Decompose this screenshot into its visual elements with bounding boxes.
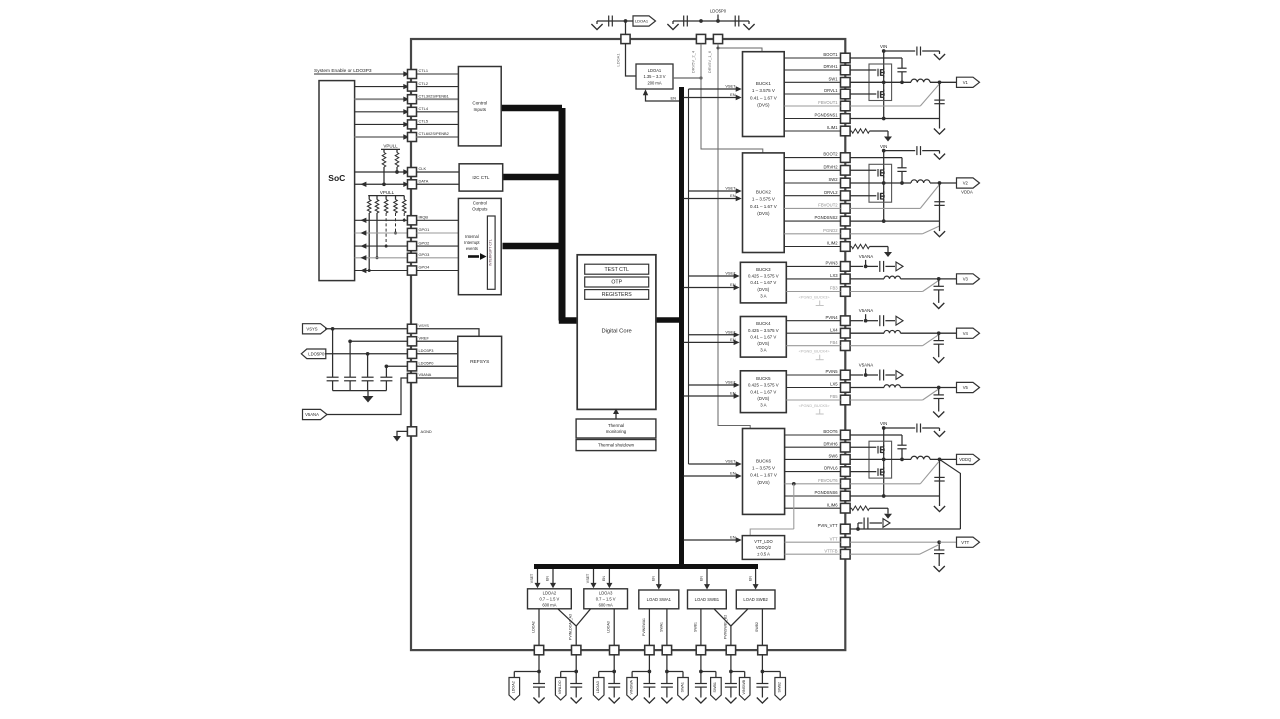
svg-text:Thermal shutdown: Thermal shutdown	[598, 443, 635, 448]
svg-text:VINSWB: VINSWB	[742, 679, 746, 694]
svg-text:V5: V5	[963, 385, 969, 390]
svg-text:VSET: VSET	[725, 271, 736, 276]
svg-text:GPO1: GPO1	[419, 227, 430, 232]
svg-text:SW6: SW6	[829, 454, 839, 459]
svg-text:VPULL: VPULL	[380, 190, 395, 195]
svg-text:VDDA: VDDA	[961, 189, 973, 194]
svg-text:FBVOUT2: FBVOUT2	[818, 203, 838, 208]
svg-text:DRV5V_1_6: DRV5V_1_6	[707, 50, 712, 73]
svg-text:PVINSWB1_B2: PVINSWB1_B2	[723, 615, 727, 639]
svg-text:0.41 – 1.67 V: 0.41 – 1.67 V	[750, 204, 777, 209]
svg-text:SW1: SW1	[829, 76, 839, 81]
svg-text:0.425 – 3.575 V: 0.425 – 3.575 V	[748, 328, 779, 333]
svg-text:EN: EN	[730, 282, 736, 287]
svg-text:EN: EN	[730, 193, 736, 198]
svg-text:REGISTERS: REGISTERS	[602, 292, 633, 298]
svg-text:LDO5P0: LDO5P0	[419, 361, 435, 366]
svg-text:(DVS): (DVS)	[757, 211, 770, 216]
svg-text:PVINLDOA2_A3: PVINLDOA2_A3	[569, 614, 573, 640]
svg-text:LDO5P0: LDO5P0	[308, 351, 325, 356]
svg-text:DATA: DATA	[419, 179, 429, 184]
svg-text:PGNDSNS6: PGNDSNS6	[815, 490, 839, 495]
svg-text:SWB2: SWB2	[778, 682, 782, 692]
svg-text:(DVS): (DVS)	[757, 396, 769, 401]
svg-text:SWB2: SWB2	[755, 622, 759, 632]
svg-text:ILIM2: ILIM2	[827, 241, 838, 246]
svg-text:PVIN_VTT: PVIN_VTT	[818, 523, 838, 528]
svg-text:EN: EN	[652, 576, 656, 581]
svg-text:0.425 – 3.575 V: 0.425 – 3.575 V	[748, 274, 779, 279]
svg-text:VIN: VIN	[880, 421, 887, 426]
svg-text:1 – 3.575 V: 1 – 3.575 V	[752, 88, 775, 93]
svg-text:0.425 – 3.575 V: 0.425 – 3.575 V	[748, 383, 779, 388]
svg-text:BUCK6: BUCK6	[756, 458, 772, 463]
svg-text:EN: EN	[748, 576, 752, 581]
svg-text:0.41 – 1.67 V: 0.41 – 1.67 V	[750, 280, 776, 285]
svg-text:Interrupt: Interrupt	[464, 240, 480, 245]
svg-text:VDDQ: VDDQ	[959, 457, 972, 462]
svg-text:DRVH1: DRVH1	[823, 64, 838, 69]
svg-text:LDO5P0: LDO5P0	[710, 9, 727, 14]
svg-text:VSYS: VSYS	[306, 326, 317, 331]
svg-text:CLK: CLK	[419, 166, 427, 171]
svg-text:SWA1: SWA1	[680, 682, 684, 692]
svg-text:PVIN4: PVIN4	[825, 315, 838, 320]
svg-text:SWB1: SWB1	[713, 682, 717, 692]
svg-text:FBVOUT6: FBVOUT6	[818, 478, 838, 483]
svg-text:PGNDSNS1: PGNDSNS1	[815, 113, 839, 118]
svg-text:LOAD SWB2: LOAD SWB2	[743, 597, 768, 602]
svg-text:VTT: VTT	[830, 536, 838, 541]
svg-text:IRQB: IRQB	[419, 215, 429, 220]
svg-text:VIN: VIN	[880, 44, 887, 49]
svg-text:EN: EN	[700, 576, 704, 581]
svg-text:EN: EN	[602, 576, 606, 581]
svg-text:FB5: FB5	[830, 394, 838, 399]
svg-text:System Enable or LDO3P3: System Enable or LDO3P3	[314, 68, 372, 74]
svg-text:PVIN3: PVIN3	[825, 261, 838, 266]
svg-text:DRV5V_2_4: DRV5V_2_4	[690, 50, 695, 73]
svg-text:VSET: VSET	[725, 459, 736, 464]
svg-text:1 – 3.575 V: 1 – 3.575 V	[752, 197, 775, 202]
svg-text:0.41 – 1.67 V: 0.41 – 1.67 V	[750, 473, 777, 478]
svg-text:V5ANA: V5ANA	[419, 372, 432, 377]
svg-text:(DVS): (DVS)	[757, 341, 769, 346]
svg-text:LDOA1: LDOA1	[648, 68, 662, 73]
svg-text:VINLDO: VINLDO	[558, 680, 562, 694]
svg-text:GPO3: GPO3	[419, 252, 430, 257]
svg-text:600 mA: 600 mA	[599, 602, 613, 607]
svg-text:VSET: VSET	[530, 573, 534, 583]
svg-text:LDOA3: LDOA3	[607, 621, 611, 633]
svg-text:PGNDSNS2: PGNDSNS2	[815, 215, 839, 220]
svg-text:± 0.5 A: ± 0.5 A	[757, 551, 770, 556]
svg-text:SW2: SW2	[829, 177, 839, 182]
svg-text:LX4: LX4	[830, 327, 838, 332]
svg-text:LDOA2: LDOA2	[531, 621, 535, 633]
svg-text:VSET: VSET	[725, 329, 736, 334]
svg-text:Inputs: Inputs	[474, 107, 487, 112]
svg-text:CTL6/I2S/PENB2: CTL6/I2S/PENB2	[419, 131, 449, 136]
svg-text:0.41 – 1.67 V: 0.41 – 1.67 V	[750, 389, 776, 394]
svg-text:VSYS: VSYS	[419, 323, 430, 328]
svg-text:EN: EN	[730, 337, 736, 342]
svg-text:EN: EN	[670, 96, 676, 101]
svg-text:EN: EN	[730, 471, 736, 476]
svg-text:TEST CTL: TEST CTL	[604, 267, 629, 273]
svg-text:<PGND_BUCK5>: <PGND_BUCK5>	[799, 403, 831, 408]
svg-text:BUCK4: BUCK4	[756, 321, 771, 326]
svg-text:VSET: VSET	[586, 573, 590, 583]
svg-text:LDOA2: LDOA2	[543, 590, 557, 595]
svg-text:BOOT1: BOOT1	[823, 52, 838, 57]
svg-text:V4: V4	[963, 331, 969, 336]
svg-text:(DVS): (DVS)	[757, 287, 769, 292]
svg-text:ILIM6: ILIM6	[827, 502, 838, 507]
svg-text:LDOA1: LDOA1	[616, 53, 621, 67]
svg-text:200 mA: 200 mA	[647, 80, 661, 85]
svg-text:<PGND_BUCK4>: <PGND_BUCK4>	[799, 349, 831, 354]
svg-text:SWA1: SWA1	[659, 622, 663, 632]
svg-text:CTL3/I2S/PENB1: CTL3/I2S/PENB1	[419, 93, 449, 98]
svg-text:Digital Core: Digital Core	[601, 329, 631, 335]
svg-text:BUCK1: BUCK1	[756, 81, 772, 86]
svg-text:PVINSWA1: PVINSWA1	[642, 618, 646, 636]
svg-text:FBVOUT1: FBVOUT1	[818, 100, 838, 105]
svg-text:VSET: VSET	[725, 84, 736, 89]
svg-text:(DVS): (DVS)	[757, 480, 770, 485]
svg-text:LOAD SWA1: LOAD SWA1	[647, 597, 672, 602]
svg-text:1 – 3.575 V: 1 – 3.575 V	[752, 465, 775, 470]
svg-text:0.7 – 1.5 V: 0.7 – 1.5 V	[596, 596, 616, 601]
svg-text:FB3: FB3	[830, 286, 838, 291]
svg-text:OTP: OTP	[611, 280, 622, 286]
svg-text:V3: V3	[963, 277, 969, 282]
svg-text:600 mA: 600 mA	[542, 602, 556, 607]
svg-text:BUCK5: BUCK5	[756, 376, 771, 381]
svg-text:events: events	[466, 246, 478, 251]
svg-text:VDDQ/2: VDDQ/2	[756, 545, 772, 550]
svg-text:LDOA1: LDOA1	[635, 19, 649, 24]
svg-text:SWB1: SWB1	[693, 622, 697, 632]
svg-text:DRVH2: DRVH2	[823, 164, 838, 169]
svg-text:DRVH6: DRVH6	[823, 441, 838, 446]
svg-text:VSET: VSET	[725, 380, 736, 385]
svg-text:VTT_LDO: VTT_LDO	[754, 539, 772, 544]
svg-text:FB4: FB4	[830, 340, 838, 345]
svg-text:BUCK2: BUCK2	[756, 190, 772, 195]
svg-text:Internal: Internal	[465, 234, 479, 239]
svg-text:VINSWA: VINSWA	[629, 680, 633, 695]
svg-text:0.41 – 1.67 V: 0.41 – 1.67 V	[750, 334, 776, 339]
svg-text:V5ANA: V5ANA	[859, 363, 873, 368]
svg-text:<PGND_BUCK3>: <PGND_BUCK3>	[799, 295, 831, 300]
svg-text:BUCK3: BUCK3	[756, 267, 771, 272]
svg-text:V1: V1	[963, 80, 969, 85]
svg-text:(DVS): (DVS)	[757, 103, 770, 108]
svg-text:DRVL1: DRVL1	[824, 88, 838, 93]
svg-text:PVIN5: PVIN5	[825, 369, 838, 374]
svg-text:1.35 – 3.3 V: 1.35 – 3.3 V	[643, 74, 665, 79]
svg-text:CTL2: CTL2	[419, 81, 429, 86]
svg-text:LDOA3: LDOA3	[599, 590, 613, 595]
svg-text:PGND2: PGND2	[823, 228, 838, 233]
svg-text:BOOT2: BOOT2	[823, 152, 838, 157]
svg-text:VTTFB: VTTFB	[824, 548, 837, 553]
svg-text:3 A: 3 A	[760, 403, 766, 408]
svg-text:GPO2: GPO2	[419, 240, 430, 245]
svg-text:LDO3P3: LDO3P3	[419, 348, 434, 353]
svg-text:VIN: VIN	[880, 144, 887, 149]
svg-text:INTERRUPT CTL: INTERRUPT CTL	[489, 239, 493, 266]
svg-text:DRVL6: DRVL6	[824, 466, 838, 471]
svg-text:CTL5: CTL5	[419, 119, 429, 124]
svg-text:LOAD SWB1: LOAD SWB1	[695, 597, 720, 602]
svg-text:Control: Control	[472, 101, 487, 106]
svg-text:LDOA3: LDOA3	[596, 681, 600, 693]
svg-text:VREF: VREF	[419, 336, 430, 341]
svg-text:monitoring: monitoring	[606, 429, 627, 434]
svg-text:0.41 – 1.67 V: 0.41 – 1.67 V	[750, 95, 777, 100]
svg-text:V2: V2	[963, 181, 969, 186]
svg-text:Control: Control	[473, 201, 487, 206]
svg-text:EN: EN	[730, 391, 736, 396]
svg-text:0.7 – 1.5 V: 0.7 – 1.5 V	[539, 596, 559, 601]
svg-text:EN: EN	[546, 576, 550, 581]
svg-text:3 A: 3 A	[760, 348, 766, 353]
svg-text:V5ANA: V5ANA	[859, 254, 873, 259]
svg-text:DRVL2: DRVL2	[824, 190, 838, 195]
svg-text:LX3: LX3	[830, 273, 838, 278]
svg-text:EN: EN	[730, 535, 736, 540]
svg-text:V5ANA: V5ANA	[859, 308, 873, 313]
svg-text:CTL1: CTL1	[419, 68, 429, 73]
svg-text:3 A: 3 A	[760, 293, 766, 298]
svg-text:VSET: VSET	[725, 186, 736, 191]
svg-text:V5ANA: V5ANA	[305, 412, 319, 417]
svg-text:Thermal: Thermal	[608, 423, 624, 428]
svg-text:LDOA2: LDOA2	[512, 681, 516, 693]
svg-text:ILIM1: ILIM1	[827, 125, 838, 130]
svg-text:I2C CTL: I2C CTL	[472, 175, 490, 180]
svg-text:CTL4: CTL4	[419, 106, 429, 111]
svg-text:Outputs: Outputs	[472, 207, 488, 212]
svg-text:BOOT6: BOOT6	[823, 429, 838, 434]
svg-text:AGND: AGND	[421, 429, 432, 434]
svg-text:LX5: LX5	[830, 382, 838, 387]
svg-text:SoC: SoC	[328, 173, 345, 183]
svg-text:VPULL: VPULL	[383, 144, 398, 149]
svg-text:VTT: VTT	[961, 540, 969, 545]
svg-text:GPO4: GPO4	[419, 265, 431, 270]
svg-text:REFSYS: REFSYS	[470, 359, 489, 365]
svg-text:EN: EN	[730, 92, 736, 97]
